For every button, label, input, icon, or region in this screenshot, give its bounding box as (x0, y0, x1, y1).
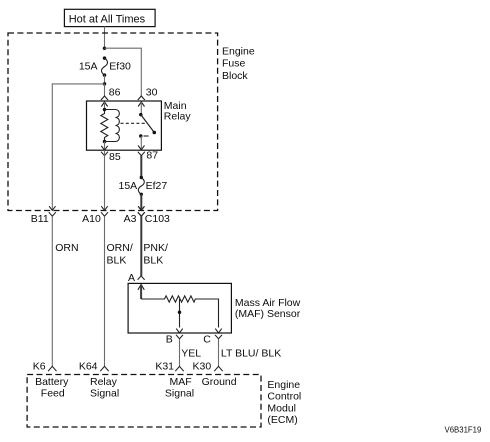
wire: C103 down to MAF terminal A (thick) (140, 216, 142, 276)
relay coil (bumps, parallel branch) (105, 110, 120, 142)
relay switch (139, 113, 156, 138)
terminal A10 (arrow at edge, connector cup below) (82, 206, 108, 225)
fuse Ef30 15A (79, 56, 131, 77)
fuse Ef27 15A (119, 176, 168, 196)
svg-text:Battery: Battery (35, 376, 69, 388)
svg-text:86: 86 (109, 87, 121, 99)
terminal 86 (chevron above edge, arrow inside) (101, 87, 121, 110)
svg-text:B11: B11 (31, 213, 49, 225)
Engine Fuse Block box (dashed) (8, 33, 218, 211)
svg-text:Engine: Engine (267, 379, 300, 391)
MAF terminal C (arrow at edge, cup below) (203, 329, 222, 346)
wire: MAF B down to ECM K31 (179, 339, 181, 367)
svg-text:Signal: Signal (165, 387, 194, 399)
ECM terminal K6 (33, 360, 57, 372)
wire: down to relay terminal 86 (104, 84, 106, 96)
ECM pin function labels (35, 376, 237, 400)
svg-text:A10: A10 (82, 213, 101, 225)
node: junction feeding B11 branch (103, 82, 107, 86)
svg-text:Ef30: Ef30 (109, 60, 131, 72)
node: junction below Hot feed (103, 46, 107, 50)
wire: B11 down to ECM K6 (51, 216, 53, 366)
svg-text:YEL: YEL (181, 347, 201, 359)
MAF sensing resistor (141, 296, 218, 328)
svg-text:Ef27: Ef27 (146, 180, 168, 192)
terminal B11 (arrow at edge, connector cup below) (31, 206, 56, 225)
wire: switch contact down to terminal 87 (140, 136, 142, 150)
svg-text:Control: Control (267, 391, 301, 403)
svg-text:A3: A3 (124, 213, 137, 225)
relay U1 Main Relay box (87, 101, 162, 150)
svg-text:K31: K31 (155, 360, 174, 372)
Engine Fuse Block label (222, 45, 255, 81)
svg-text:Fuse: Fuse (222, 58, 246, 70)
MAF center tap to B (178, 299, 182, 328)
svg-text:LT BLU/ BLK: LT BLU/ BLK (221, 347, 281, 359)
relay coil resistor (zigzag) (101, 108, 108, 144)
wire: branch left and down to B11 (52, 84, 104, 210)
Engine Control Modul (ECM) label (267, 379, 301, 426)
wire: relay 85 down to A10 (104, 150, 106, 210)
wire: A10 down to ECM K64 (104, 216, 106, 366)
svg-text:Signal: Signal (90, 387, 119, 399)
terminal 30 (chevron above edge, arrow inside) (138, 87, 158, 115)
terminal 87 (arrow at edge, cup below) (138, 145, 158, 161)
svg-text:Feed: Feed (41, 387, 65, 399)
MAF terminal B (arrow at edge, cup below) (166, 329, 183, 346)
svg-text:15A: 15A (79, 60, 98, 72)
wire: Hot box down to junction (104, 26, 106, 48)
svg-text:87: 87 (146, 149, 158, 161)
svg-text:BLK: BLK (143, 254, 163, 266)
terminal 85 (arrow at edge, cup below) (101, 142, 121, 163)
svg-text:PNK/: PNK/ (143, 242, 168, 254)
svg-text:30: 30 (146, 87, 158, 99)
dashed link coil to switch (121, 122, 148, 124)
terminal A3 / connector C103 (arrow at edge, cup below) (124, 206, 170, 225)
wire: relay 87 down through fuse Ef27 (thick) (140, 156, 142, 178)
svg-text:15A: 15A (119, 180, 138, 192)
svg-text:Hot at All Times: Hot at All Times (69, 14, 146, 26)
wire: branch right to relay terminal 30 (105, 48, 142, 96)
svg-text:Block: Block (222, 70, 248, 82)
svg-text:85: 85 (109, 151, 121, 163)
svg-text:Modul: Modul (267, 402, 296, 414)
svg-text:Engine: Engine (222, 45, 255, 57)
Mass Air Flow (MAF) Sensor box (128, 283, 231, 333)
svg-text:Ground: Ground (202, 376, 237, 388)
MAF internal: arrow in at A (138, 285, 144, 299)
svg-text:V6B31F19: V6B31F19 (445, 426, 482, 435)
wire: MAF C down to ECM K30 (218, 339, 220, 367)
svg-text:C103: C103 (145, 213, 170, 225)
ECM terminal K64 (79, 360, 109, 372)
svg-text:MAF: MAF (170, 376, 192, 388)
ECM terminal K30 (193, 360, 223, 372)
svg-text:A: A (128, 272, 135, 284)
Hot at All Times box (64, 9, 155, 26)
svg-text:(MAF) Sensor: (MAF) Sensor (235, 308, 301, 320)
svg-text:ORN/: ORN/ (107, 242, 133, 254)
svg-text:(ECM): (ECM) (267, 414, 297, 426)
svg-text:BLK: BLK (107, 254, 127, 266)
svg-text:K6: K6 (33, 360, 46, 372)
svg-text:Relay: Relay (90, 376, 118, 388)
wire: fuse to lower junction (104, 75, 106, 84)
Engine Control Modul (ECM) box (dashed) (27, 375, 261, 428)
wire: fuse Ef27 down to A3 edge (thick) (140, 194, 142, 210)
svg-text:K30: K30 (193, 360, 212, 372)
svg-text:C: C (203, 333, 211, 345)
svg-text:B: B (166, 333, 173, 345)
MAF terminal A (chevron above edge) (128, 272, 145, 284)
ECM terminal K31 (155, 360, 183, 372)
svg-text:Relay: Relay (164, 111, 192, 123)
svg-text:K64: K64 (79, 360, 98, 372)
svg-text:ORN: ORN (55, 242, 78, 254)
